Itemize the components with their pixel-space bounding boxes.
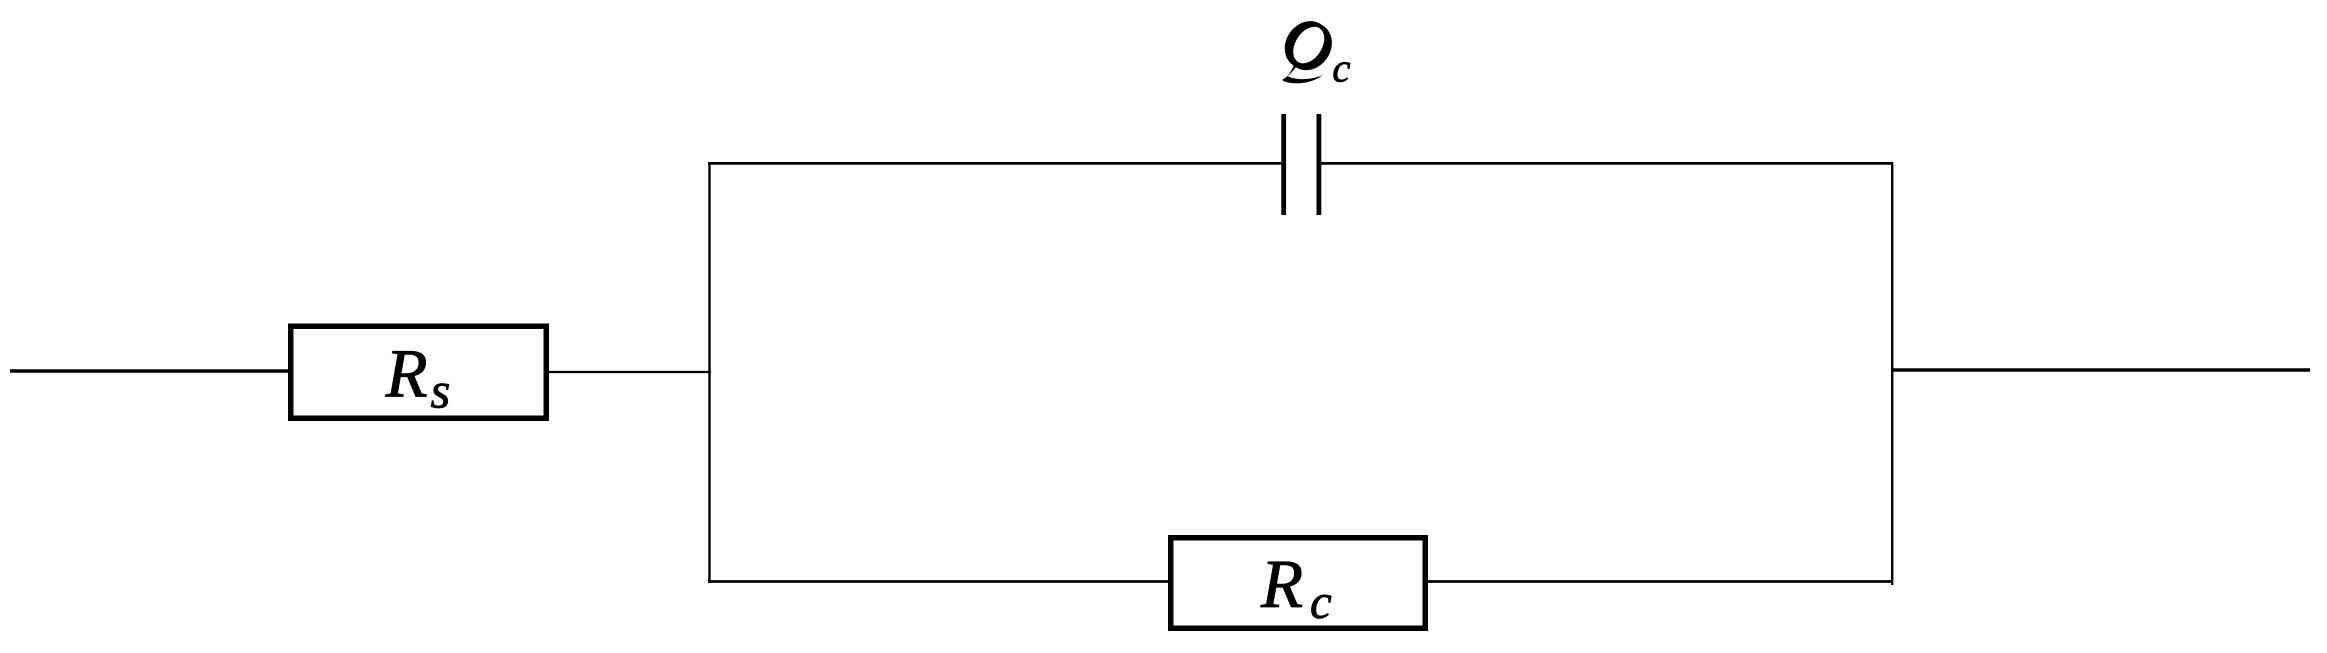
wire Rs to node A (546, 371, 711, 373)
wire bottom branch left (708, 580, 1170, 583)
resistor Rs (291, 326, 547, 418)
capacitor Qc (1284, 114, 1319, 215)
label Rs (385, 351, 449, 408)
node B (right junction vertical) (1891, 162, 1893, 585)
node A (left junction vertical) (708, 162, 710, 583)
label Rc (1261, 562, 1332, 619)
wire bottom branch right (1426, 580, 1893, 583)
wire top branch right (1319, 162, 1893, 165)
wire left lead (10, 369, 292, 372)
wire right lead (1891, 368, 2310, 371)
label Qc (1282, 21, 1350, 83)
resistor Rc (1171, 538, 1426, 629)
wire top branch left (708, 162, 1284, 165)
